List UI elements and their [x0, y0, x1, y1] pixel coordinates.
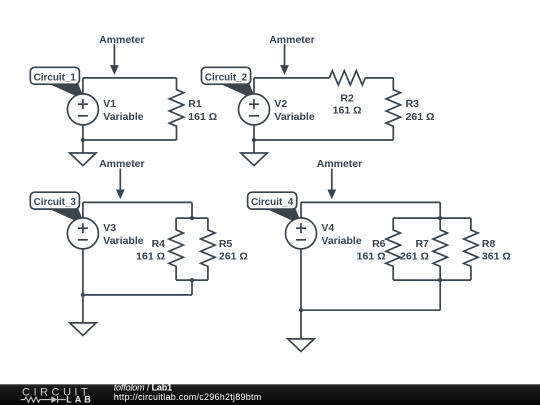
wire parallel top bar (circuit 3): [176, 217, 208, 219]
svg-text:V3: V3: [103, 222, 116, 234]
svg-text:Circuit_4: Circuit_4: [251, 197, 294, 208]
ammeter arrow (circuit 3): [116, 169, 125, 200]
svg-text:Variable: Variable: [274, 111, 314, 123]
svg-text:361 Ω: 361 Ω: [482, 250, 511, 262]
wire V4 bottom stub: [300, 249, 302, 339]
svg-text:Circuit_1: Circuit_1: [34, 72, 77, 83]
resistor R7: [433, 218, 447, 280]
wire V2 top stub: [253, 78, 255, 94]
voltage source V4: [286, 218, 317, 249]
svg-text:V2: V2: [274, 98, 287, 110]
label R6 161 ohm: [357, 238, 386, 262]
wire parallel bottom bar (circuit 3): [176, 279, 208, 281]
svg-text:161 Ω: 161 Ω: [136, 250, 165, 262]
ground (circuit 4): [288, 339, 314, 352]
svg-text:V4: V4: [321, 222, 334, 234]
wire V1 top stub: [82, 78, 84, 94]
ammeter arrow (circuit 4): [327, 169, 336, 200]
wire top (circuit 4): [301, 201, 440, 203]
wire bottom (circuit 2): [254, 139, 393, 141]
resistor R8: [464, 218, 478, 280]
label R4 161 ohm: [136, 238, 165, 262]
wire bottom (circuit 3): [83, 294, 192, 296]
resistor R4: [169, 218, 183, 280]
label R7 261 ohm: [400, 238, 429, 262]
label V1 Variable: [103, 98, 143, 123]
svg-text:Circuit_3: Circuit_3: [34, 197, 77, 208]
svg-text:R5: R5: [219, 238, 233, 250]
junction top (circuit 4): [438, 216, 442, 220]
wire right drop (circuit 4): [439, 202, 441, 218]
label R5 261 ohm: [219, 238, 248, 262]
ground (circuit 2): [241, 153, 267, 166]
svg-text:http://circuitlab.com/c296h2tj: http://circuitlab.com/c296h2tj89btm: [114, 392, 262, 402]
wire right drop lower (circuit 3): [191, 280, 193, 295]
svg-text:Ammeter: Ammeter: [269, 34, 315, 46]
svg-text:R4: R4: [152, 238, 166, 250]
svg-text:Circuit_2: Circuit_2: [205, 72, 248, 83]
svg-text:261 Ω: 261 Ω: [219, 250, 248, 262]
svg-text:Ammeter: Ammeter: [99, 158, 145, 170]
wire top (circuit 3): [83, 201, 192, 203]
svg-text:161 Ω: 161 Ω: [333, 104, 362, 116]
junction (circuit 1): [81, 138, 85, 142]
svg-text:R7: R7: [415, 238, 429, 250]
ammeter arrow (circuit 2): [280, 44, 289, 75]
wire V1 bottom stub: [82, 125, 84, 153]
wire parallel top bar (circuit 4): [393, 217, 471, 219]
svg-text:R3: R3: [406, 98, 420, 110]
svg-text:Variable: Variable: [103, 111, 143, 123]
label R3 261 ohm: [406, 98, 435, 123]
annotation bubble Circuit_2: [202, 67, 257, 100]
svg-text:R6: R6: [372, 238, 386, 250]
wire parallel bottom bar (circuit 4): [393, 279, 471, 281]
ground (circuit 1): [70, 153, 96, 166]
label R1 161 ohm: [188, 98, 217, 123]
ammeter label Ammeter (circuit 1): [99, 34, 145, 46]
annotation bubble Circuit_3: [30, 192, 85, 225]
ammeter label Ammeter (circuit 3): [99, 158, 145, 170]
svg-text:161 Ω: 161 Ω: [357, 250, 386, 262]
svg-text:Ammeter: Ammeter: [317, 158, 363, 170]
junction top (circuit 3): [190, 216, 194, 220]
logo schematic line with resistor and diode: [21, 396, 66, 403]
wire V4 top stub: [300, 202, 302, 218]
annotation bubble Circuit_4: [248, 192, 303, 225]
svg-text:LAB: LAB: [66, 395, 94, 405]
resistor R6: [386, 218, 400, 280]
voltage source V3: [67, 218, 98, 249]
junction (circuit 3): [81, 293, 85, 297]
wire V3 top stub: [82, 202, 84, 218]
ammeter label Ammeter (circuit 2): [269, 34, 315, 46]
svg-text:Variable: Variable: [321, 235, 361, 247]
svg-text:161 Ω: 161 Ω: [188, 111, 217, 123]
svg-text:V1: V1: [103, 98, 116, 110]
wire V3 bottom stub: [82, 249, 84, 323]
annotation bubble Circuit_1: [30, 67, 85, 100]
svg-text:R8: R8: [482, 238, 496, 250]
voltage source V1: [67, 94, 98, 125]
wire bottom (circuit 1): [83, 139, 177, 141]
svg-text:261 Ω: 261 Ω: [400, 250, 429, 262]
wire V2 bottom stub: [253, 125, 255, 153]
voltage source V2: [239, 94, 270, 125]
wire top (circuit 1): [83, 77, 177, 79]
junction bottom (circuit 4): [438, 278, 442, 282]
resistor R3: [386, 78, 400, 140]
svg-text:toffolom / Lab1: toffolom / Lab1: [114, 382, 172, 392]
ground (circuit 3): [70, 323, 96, 336]
resistor R1: [169, 78, 183, 140]
ammeter arrow (circuit 1): [110, 44, 119, 75]
svg-text:R2: R2: [340, 92, 354, 104]
wire top right (circuit 2): [365, 77, 393, 79]
wire bottom (circuit 4): [301, 309, 440, 311]
svg-text:261 Ω: 261 Ω: [406, 111, 435, 123]
wire right drop (circuit 3): [191, 202, 193, 218]
ammeter label Ammeter (circuit 4): [317, 158, 363, 170]
junction (circuit 4): [299, 308, 303, 312]
junction bottom (circuit 3): [190, 278, 194, 282]
label V3 Variable: [103, 222, 143, 247]
label V2 Variable: [274, 98, 314, 123]
svg-text:Ammeter: Ammeter: [99, 34, 145, 46]
resistor R5: [201, 218, 215, 280]
wire right drop lower (circuit 4): [439, 280, 441, 310]
svg-text:Variable: Variable: [103, 235, 143, 247]
resistor R2: [329, 71, 365, 85]
label V4 Variable: [321, 222, 361, 247]
label R2 161 ohm: [333, 92, 362, 116]
label R8 361 ohm: [482, 238, 511, 262]
svg-text:R1: R1: [188, 98, 202, 110]
wire top left (circuit 2): [254, 77, 329, 79]
junction (circuit 2): [252, 138, 256, 142]
